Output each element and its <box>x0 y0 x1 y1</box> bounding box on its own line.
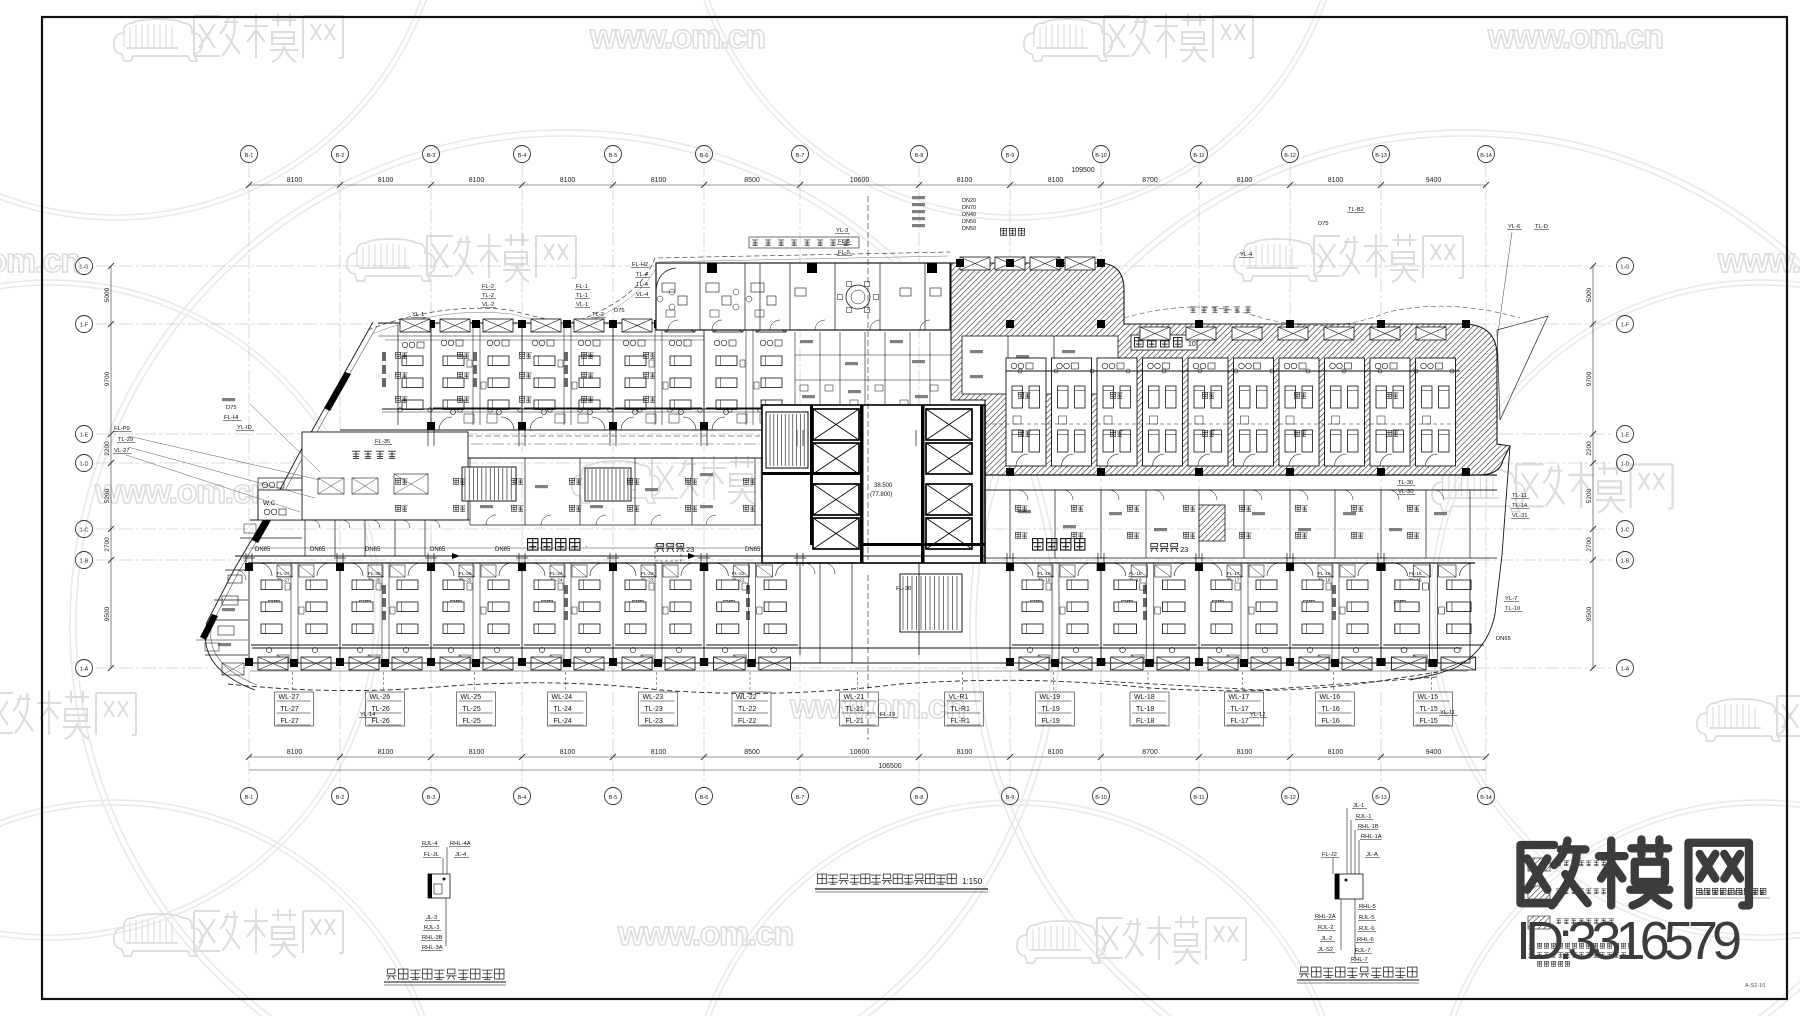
svg-text:YL-7: YL-7 <box>1505 596 1517 602</box>
bottom details <box>384 803 1770 989</box>
svg-text:9400: 9400 <box>1426 177 1442 184</box>
svg-text:FL-27: FL-27 <box>281 718 299 725</box>
svg-text:B-3: B-3 <box>427 795 436 801</box>
svg-text:RJL-7: RJL-7 <box>1355 948 1370 954</box>
svg-text:VL-1: VL-1 <box>576 302 588 308</box>
svg-text:·: · <box>585 542 588 551</box>
svg-text:TL-27: TL-27 <box>281 706 299 713</box>
svg-text:VL-4: VL-4 <box>636 292 649 298</box>
svg-text:B-7: B-7 <box>796 153 805 159</box>
svg-text:FL-15: FL-15 <box>1420 718 1438 725</box>
svg-text:TL-21: TL-21 <box>846 706 864 713</box>
svg-text:2200: 2200 <box>104 441 111 456</box>
svg-text:JL-1: JL-1 <box>1353 803 1364 809</box>
svg-text:B-10: B-10 <box>1095 153 1107 159</box>
svg-text:10: 10 <box>1188 341 1196 348</box>
svg-text:DN20: DN20 <box>962 198 976 204</box>
svg-text:1-D: 1-D <box>80 462 89 468</box>
svg-text:B-12: B-12 <box>1284 795 1296 801</box>
svg-text:WL-19: WL-19 <box>1040 694 1061 701</box>
svg-text:8100: 8100 <box>651 749 667 756</box>
logo <box>1520 839 1748 905</box>
svg-text:8100: 8100 <box>1328 177 1344 184</box>
svg-text:A-S2-16: A-S2-16 <box>1745 983 1765 989</box>
svg-text:FL-5: FL-5 <box>838 250 850 256</box>
svg-text:8100: 8100 <box>957 177 973 184</box>
svg-text:RJL-2: RJL-2 <box>1318 925 1333 931</box>
svg-text:TL-24: TL-24 <box>554 706 572 713</box>
svg-text:RJL-3: RJL-3 <box>424 925 439 931</box>
dimensions <box>104 167 1596 770</box>
svg-text:B-11: B-11 <box>1193 153 1204 159</box>
svg-text:WL-26: WL-26 <box>370 694 391 701</box>
svg-text:RHL-1B: RHL-1B <box>1358 824 1379 830</box>
svg-text:WL-15: WL-15 <box>1418 694 1439 701</box>
svg-text:FL-24: FL-24 <box>554 718 572 725</box>
svg-text:RHL-3A: RHL-3A <box>422 945 443 951</box>
svg-text:VL-27: VL-27 <box>114 448 129 454</box>
svg-text:RJL-1: RJL-1 <box>1356 814 1371 820</box>
svg-text:B-13: B-13 <box>1375 153 1387 159</box>
svg-text:TL-11: TL-11 <box>1512 493 1527 499</box>
svg-text:JL-S2: JL-S2 <box>1318 947 1333 953</box>
svg-text:YL-12: YL-12 <box>1250 712 1265 718</box>
svg-text:TL-19: TL-19 <box>1042 706 1060 713</box>
svg-text:WL-24: WL-24 <box>552 694 573 701</box>
svg-text:RHL-4A: RHL-4A <box>450 841 471 847</box>
svg-text:B-7: B-7 <box>796 795 805 801</box>
svg-text:RJL-4: RJL-4 <box>422 841 438 847</box>
svg-text:WL-16: WL-16 <box>1320 694 1341 701</box>
svg-text:8100: 8100 <box>287 749 303 756</box>
svg-text:8100: 8100 <box>651 177 667 184</box>
svg-text:1-F: 1-F <box>1621 323 1630 329</box>
svg-text:DN50: DN50 <box>962 219 976 225</box>
svg-text:8100: 8100 <box>469 749 485 756</box>
svg-text:TL-4: TL-4 <box>636 282 649 288</box>
svg-text:5200: 5200 <box>1586 488 1593 503</box>
svg-text:B-4: B-4 <box>518 153 527 159</box>
svg-text:9500: 9500 <box>1586 606 1593 621</box>
svg-text:1-G: 1-G <box>1620 265 1629 271</box>
svg-text:1:150: 1:150 <box>962 877 983 886</box>
svg-text:RHL-1A: RHL-1A <box>1361 834 1382 840</box>
svg-text:8100: 8100 <box>469 177 485 184</box>
svg-text:FL-35: FL-35 <box>375 439 390 445</box>
svg-text:WL-25: WL-25 <box>461 694 482 701</box>
svg-text:FL-R1: FL-R1 <box>951 718 971 725</box>
svg-text:B-4: B-4 <box>518 795 527 801</box>
svg-text:JL-4: JL-4 <box>455 852 467 858</box>
svg-text:8500: 8500 <box>744 177 760 184</box>
svg-text:YL-4: YL-4 <box>1240 252 1253 258</box>
svg-text:1-C: 1-C <box>1621 528 1630 534</box>
svg-text:8100: 8100 <box>378 177 394 184</box>
svg-text:WL-21: WL-21 <box>844 694 865 701</box>
svg-text:FL-18: FL-18 <box>1136 718 1154 725</box>
svg-text:109500: 109500 <box>1071 167 1094 174</box>
svg-text:YL-6: YL-6 <box>1508 224 1520 230</box>
svg-text:DN65: DN65 <box>1496 636 1511 642</box>
svg-text:TL-18: TL-18 <box>1136 706 1154 713</box>
svg-text:DN40: DN40 <box>962 212 976 218</box>
svg-text:FL-25: FL-25 <box>463 718 481 725</box>
svg-text:FL-1: FL-1 <box>576 284 588 290</box>
svg-text:23: 23 <box>686 545 694 554</box>
svg-text:YL-3: YL-3 <box>836 228 848 234</box>
svg-text:RHL-3B: RHL-3B <box>422 935 443 941</box>
svg-text:8100: 8100 <box>957 749 973 756</box>
svg-text:FL-19: FL-19 <box>1042 718 1060 725</box>
svg-text:B-2: B-2 <box>336 153 345 159</box>
svg-text:8100: 8100 <box>378 749 394 756</box>
svg-text:B-8: B-8 <box>915 795 924 801</box>
svg-text:FL-38: FL-38 <box>896 586 911 592</box>
svg-text:B-8: B-8 <box>915 153 924 159</box>
leader labels <box>113 196 1549 718</box>
svg-text:B-6: B-6 <box>700 153 709 159</box>
svg-text:YL-14: YL-14 <box>360 712 376 718</box>
svg-text:VL-R1: VL-R1 <box>949 694 969 701</box>
svg-text:FL-JL: FL-JL <box>424 852 440 858</box>
svg-text:8100: 8100 <box>1328 749 1344 756</box>
svg-text:FL-21: FL-21 <box>846 718 864 725</box>
svg-text:23: 23 <box>1180 545 1188 554</box>
svg-text:1-A: 1-A <box>80 667 89 673</box>
svg-text:TL-29: TL-29 <box>118 437 133 443</box>
svg-text:WL-27: WL-27 <box>279 694 300 701</box>
svg-text:10600: 10600 <box>850 749 870 756</box>
svg-text:1-C: 1-C <box>80 528 89 534</box>
building plan <box>196 196 1548 740</box>
svg-text:RJL-5: RJL-5 <box>1359 915 1374 921</box>
svg-text:VL-30: VL-30 <box>1398 489 1413 495</box>
svg-text:TL-10: TL-10 <box>1505 606 1520 612</box>
svg-text:D75: D75 <box>226 405 237 411</box>
svg-text:YL-11: YL-11 <box>1440 710 1455 716</box>
svg-text:B-13: B-13 <box>1375 795 1387 801</box>
svg-text:8100: 8100 <box>1237 749 1253 756</box>
svg-text:ID:3316579: ID:3316579 <box>1516 911 1742 971</box>
svg-text:B-5: B-5 <box>609 153 618 159</box>
svg-text:FL-26: FL-26 <box>372 718 390 725</box>
svg-text:8100: 8100 <box>560 749 576 756</box>
svg-text:DN65: DN65 <box>255 547 271 553</box>
svg-text:TL-25: TL-25 <box>463 706 481 713</box>
svg-text:B-9: B-9 <box>1006 795 1015 801</box>
svg-text:B-14: B-14 <box>1480 153 1492 159</box>
svg-text:1-F: 1-F <box>80 323 89 329</box>
svg-text:RHL-5: RHL-5 <box>1359 904 1376 910</box>
svg-text:WL-23: WL-23 <box>643 694 664 701</box>
svg-text:B-1: B-1 <box>245 795 254 801</box>
svg-text:DN65: DN65 <box>365 547 381 553</box>
svg-text:JL-3: JL-3 <box>426 915 437 921</box>
svg-text:TL-22: TL-22 <box>738 706 756 713</box>
svg-text:B-14: B-14 <box>1480 795 1492 801</box>
svg-text:5200: 5200 <box>104 488 111 503</box>
svg-text:D75: D75 <box>614 308 625 314</box>
svg-text:8500: 8500 <box>744 749 760 756</box>
svg-text:B-2: B-2 <box>336 795 345 801</box>
svg-text:D75: D75 <box>1318 221 1329 227</box>
grid lines and bubbles <box>76 146 1634 805</box>
svg-text:FL-P9: FL-P9 <box>114 426 130 432</box>
svg-text:1-A: 1-A <box>1621 667 1630 673</box>
svg-text:RHL-6: RHL-6 <box>1357 937 1374 943</box>
svg-text:DN65: DN65 <box>430 547 446 553</box>
svg-text:FL-17: FL-17 <box>1231 718 1249 725</box>
svg-text:TL-R1: TL-R1 <box>951 706 971 713</box>
svg-text:B-9: B-9 <box>1006 153 1015 159</box>
svg-text:DN70: DN70 <box>962 205 976 211</box>
svg-text:DN50: DN50 <box>962 226 976 232</box>
svg-text:B-12: B-12 <box>1284 153 1296 159</box>
svg-text:10600: 10600 <box>850 177 870 184</box>
svg-text:1-B: 1-B <box>1621 559 1630 565</box>
svg-text:8700: 8700 <box>1142 177 1158 184</box>
svg-text:5000: 5000 <box>1586 287 1593 302</box>
svg-text:TL-17: TL-17 <box>1231 706 1249 713</box>
svg-text:8100: 8100 <box>560 177 576 184</box>
legend notes <box>1528 858 1764 966</box>
svg-text:TL-14: TL-14 <box>1512 503 1528 509</box>
svg-text:DN65: DN65 <box>310 547 326 553</box>
svg-text:9500: 9500 <box>104 606 111 621</box>
svg-text:TL-D: TL-D <box>1535 224 1548 230</box>
svg-text:FL-16: FL-16 <box>1322 718 1340 725</box>
svg-text:1-B: 1-B <box>80 559 89 565</box>
svg-text:8100: 8100 <box>1048 177 1064 184</box>
svg-text:8700: 8700 <box>1142 749 1158 756</box>
svg-text:2700: 2700 <box>1586 537 1593 552</box>
svg-text:TL-30: TL-30 <box>1398 480 1413 486</box>
svg-text:9400: 9400 <box>1426 749 1442 756</box>
svg-text:TL-2: TL-2 <box>592 312 604 318</box>
svg-text:B-3: B-3 <box>427 153 436 159</box>
svg-text:FL-HI: FL-HI <box>224 415 239 421</box>
svg-text:WL-22: WL-22 <box>736 694 757 701</box>
svg-text:B-5: B-5 <box>609 795 618 801</box>
svg-text:FL-15: FL-15 <box>1409 571 1422 577</box>
riser label stacks <box>275 672 1453 726</box>
svg-text:9700: 9700 <box>1586 371 1593 386</box>
svg-text:38.500: 38.500 <box>874 483 893 489</box>
svg-text:FL-J2: FL-J2 <box>1322 852 1337 858</box>
svg-text:B-6: B-6 <box>700 795 709 801</box>
svg-text:5000: 5000 <box>104 287 111 302</box>
svg-text:(77.800): (77.800) <box>870 492 892 498</box>
svg-text:FL-19: FL-19 <box>880 712 895 718</box>
svg-text:FL-22: FL-22 <box>738 718 756 725</box>
svg-text:RHL-2A: RHL-2A <box>1315 914 1336 920</box>
svg-text:JL-2: JL-2 <box>1321 936 1332 942</box>
svg-text:1-E: 1-E <box>80 433 89 439</box>
svg-text:8100: 8100 <box>1048 749 1064 756</box>
svg-text:RJL-6: RJL-6 <box>1359 926 1374 932</box>
svg-text:1-G: 1-G <box>79 265 88 271</box>
svg-text:1-E: 1-E <box>1621 433 1630 439</box>
svg-text:DN65: DN65 <box>495 547 511 553</box>
svg-text:VL-2: VL-2 <box>482 302 494 308</box>
svg-text:2200: 2200 <box>1586 441 1593 456</box>
svg-text:FL-2: FL-2 <box>482 284 494 290</box>
svg-text:TL-15: TL-15 <box>1420 706 1438 713</box>
svg-text:8100: 8100 <box>287 177 303 184</box>
svg-text:8100: 8100 <box>1237 177 1253 184</box>
svg-text:DN65: DN65 <box>745 547 761 553</box>
svg-text:B-10: B-10 <box>1095 795 1107 801</box>
svg-text:TL-2: TL-2 <box>482 293 494 299</box>
svg-text:TL-B2: TL-B2 <box>1348 207 1364 213</box>
svg-text:106500: 106500 <box>878 763 901 770</box>
svg-text:TL-1: TL-1 <box>576 293 588 299</box>
svg-text:TL-16: TL-16 <box>1322 706 1340 713</box>
svg-text:B-1: B-1 <box>245 153 254 159</box>
svg-text:FL-H2: FL-H2 <box>632 262 648 268</box>
svg-text:TL-23: TL-23 <box>645 706 663 713</box>
svg-text:WL-17: WL-17 <box>1229 694 1250 701</box>
svg-text:2700: 2700 <box>104 537 111 552</box>
svg-text:1-D: 1-D <box>1621 462 1630 468</box>
svg-text:RHL-7: RHL-7 <box>1351 957 1368 963</box>
svg-text:WL-18: WL-18 <box>1134 694 1155 701</box>
svg-text:YL-ID: YL-ID <box>237 425 252 431</box>
svg-text:TL-4: TL-4 <box>636 272 649 278</box>
svg-text:9700: 9700 <box>104 371 111 386</box>
svg-text:FL-23: FL-23 <box>645 718 663 725</box>
svg-text:B-11: B-11 <box>1193 795 1204 801</box>
svg-text:YL-1: YL-1 <box>412 312 424 318</box>
svg-text:JL-A: JL-A <box>1366 852 1378 858</box>
svg-text:VL-31: VL-31 <box>1512 513 1527 519</box>
